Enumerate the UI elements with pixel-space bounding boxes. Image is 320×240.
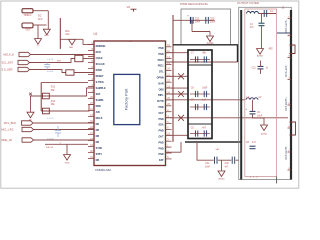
wire C4 drop xyxy=(197,142,214,160)
svg-text:OUT: OUT xyxy=(159,136,165,139)
connector J2 pins xyxy=(288,18,292,20)
wire row A to U1 xyxy=(42,81,88,83)
svg-text:10 F: 10 F xyxy=(38,18,43,21)
schematic sheet border xyxy=(1,1,299,188)
svg-text:MCL_BCK: MCL_BCK xyxy=(4,121,17,125)
wire MCLK to U1 xyxy=(31,54,95,56)
svg-text:PND: PND xyxy=(159,47,164,50)
svg-text:OUT-RGHT-: OUT-RGHT- xyxy=(285,146,288,159)
net flag MCL_LRC xyxy=(22,127,34,131)
svg-text:0.C1.F: 0.C1.F xyxy=(47,118,54,120)
net flag MDE_LR xyxy=(22,138,34,142)
decoupling section box xyxy=(181,9,231,45)
svg-text:SH5: SH5 xyxy=(96,93,101,96)
svg-text:BAR: BAR xyxy=(158,82,163,85)
svg-text:C.0.1F: C.0.1F xyxy=(47,59,54,61)
wire bottom jog up xyxy=(180,142,182,152)
supply arrow PA0 xyxy=(69,39,76,45)
ground STBY xyxy=(64,155,71,161)
wire SCL_DAT to R4 xyxy=(30,59,75,63)
resistor R4 xyxy=(75,55,83,61)
svg-text:OUTPUT FILTER: OUTPUT FILTER xyxy=(237,1,259,5)
svg-text:10uF: 10uF xyxy=(195,21,201,24)
svg-text:CS5340-CZZ: CS5340-CZZ xyxy=(95,168,111,172)
wire C6 stub xyxy=(252,100,254,111)
junction cross C xyxy=(178,115,184,121)
svg-text:10nF: 10nF xyxy=(205,166,211,168)
svg-text:OUT-RGHT+: OUT-RGHT+ xyxy=(285,96,288,110)
wire U1 row x2 xyxy=(166,93,189,95)
svg-text:PND: PND xyxy=(159,53,164,56)
net flag S_SER xyxy=(18,67,30,71)
wire to AGND xyxy=(192,31,210,33)
svg-text:SDA: SDA xyxy=(159,124,164,127)
ground AGND filter top xyxy=(257,49,264,55)
capacitor C8b plates xyxy=(250,145,256,147)
svg-text:MDE_LR: MDE_LR xyxy=(2,138,13,142)
svg-text:P.A.2.A: P.A.2.A xyxy=(46,146,54,149)
svg-text:MCLK: MCLK xyxy=(96,117,103,120)
capacitor C11 (ghost) xyxy=(57,126,59,130)
wire vertical node xyxy=(47,11,49,29)
wire U1 row x1 xyxy=(166,75,189,77)
supply VA stub xyxy=(133,9,135,11)
svg-text:STBY: STBY xyxy=(96,153,103,156)
svg-text:DCO: DCO xyxy=(96,51,101,54)
bank divider 2 xyxy=(188,123,212,125)
svg-text:OUT: OUT xyxy=(25,29,31,32)
svg-text:AGND: AGND xyxy=(261,133,268,136)
svg-text:PWR DECOUPLING: PWR DECOUPLING xyxy=(180,2,208,6)
wire R5 to U1 xyxy=(74,72,94,74)
svg-text:OTL: OTL xyxy=(159,71,164,74)
wire to gnd arrow xyxy=(30,96,32,112)
capacitor C1 series xyxy=(263,10,265,17)
wire U1 row short xyxy=(166,87,189,89)
bank divider 1 xyxy=(188,64,212,66)
svg-text:4R2: 4R2 xyxy=(269,48,274,50)
capacitor C21 plates xyxy=(258,65,264,67)
wire C21 stub up xyxy=(260,61,262,67)
svg-text:DAT: DAT xyxy=(159,159,164,162)
capacitor C52 xyxy=(205,17,207,24)
svg-text:BIPL: BIPL xyxy=(158,94,164,97)
wire filter top xyxy=(259,13,277,15)
wire U1 bottom out xyxy=(166,151,182,153)
wire STBY down xyxy=(66,144,68,154)
junction cross B xyxy=(178,91,184,97)
svg-text:OUT-LEFT+: OUT-LEFT+ xyxy=(285,19,288,33)
svg-text:C41: C41 xyxy=(205,163,210,165)
wire bold rail top xyxy=(173,45,238,62)
wire U1 out to J2 xyxy=(166,117,289,119)
svg-text:PND: PND xyxy=(159,147,164,150)
wire VA rail vertical xyxy=(172,15,174,142)
svg-text:APD: APD xyxy=(45,34,50,37)
U1 right pins xyxy=(166,46,172,48)
svg-text:C21: C21 xyxy=(252,68,257,70)
capacitor C3 plates xyxy=(259,22,265,24)
wire modsel jog vertical xyxy=(82,39,84,44)
IC U1 body xyxy=(94,41,166,166)
svg-text:SAMPLE: SAMPLE xyxy=(96,87,106,90)
capacitor C42 xyxy=(231,157,233,164)
svg-text:U1: U1 xyxy=(94,32,98,36)
svg-text:PND: PND xyxy=(159,141,164,144)
wire MCL_BCK to U1 xyxy=(33,122,94,124)
capacitor C10 (ghost) xyxy=(46,63,48,65)
wire STBY xyxy=(45,143,88,145)
wire U1 out to filter L2 xyxy=(166,99,245,101)
wire R4 to U1 xyxy=(83,58,94,60)
svg-text:PND: PND xyxy=(159,153,164,156)
svg-text:S.S_SER: S.S_SER xyxy=(2,68,13,72)
svg-text:NB: NB xyxy=(96,129,100,132)
svg-text:NB: NB xyxy=(96,141,100,144)
wire decoupling top xyxy=(173,19,215,21)
svg-text:OUT: OUT xyxy=(159,112,165,115)
inductor L2 xyxy=(246,98,258,100)
svg-text:OUT-LEFT-: OUT-LEFT- xyxy=(285,65,288,77)
svg-text:TRIM L: TRIM L xyxy=(23,14,32,17)
svg-text:DND: DND xyxy=(96,105,101,108)
svg-text:NB: NB xyxy=(96,159,100,162)
wire MDE_LR to U1 xyxy=(34,139,95,141)
supply VA bar xyxy=(131,8,137,10)
connector J2 bar xyxy=(290,10,292,180)
svg-text:VA: VA xyxy=(127,5,131,9)
connector J2 bracket A xyxy=(290,45,296,54)
wire C42 to bar xyxy=(236,159,239,161)
resistor R13 xyxy=(43,108,50,114)
svg-text:CS/LE: CS/LE xyxy=(96,57,103,60)
ground AGND jack node xyxy=(43,29,50,35)
wire jack2 to node xyxy=(33,24,47,26)
svg-text:R13: R13 xyxy=(51,101,56,103)
decoupling bank box xyxy=(188,50,212,139)
supply arrow A0 xyxy=(27,112,34,118)
net flag SCL_DAT xyxy=(18,60,30,64)
svg-text:D/SM: D/SM xyxy=(96,69,102,72)
svg-text:PD10: PD10 xyxy=(158,59,165,62)
ground AGND decoupling xyxy=(207,36,214,42)
svg-text:RESET: RESET xyxy=(96,75,105,78)
wire C3 stub xyxy=(261,14,263,23)
ground AGND filter bottom xyxy=(261,125,268,131)
svg-text:ND: ND xyxy=(96,123,100,126)
U1 left pins xyxy=(88,44,94,46)
svg-text:Factory Part: Factory Part xyxy=(124,88,129,111)
svg-text:OUTD: OUTD xyxy=(157,100,164,103)
wire into MODSEL pin xyxy=(83,44,94,46)
bus bar filter left xyxy=(240,10,242,180)
svg-text:OB8: OB8 xyxy=(159,88,165,91)
svg-text:0.01uF: 0.01uF xyxy=(47,139,54,141)
svg-text:MCL_LRC: MCL_LRC xyxy=(2,128,14,132)
resistor R11 lead xyxy=(59,18,61,49)
svg-text:AGND: AGND xyxy=(257,54,264,57)
svg-text:A/B: A/B xyxy=(96,111,100,114)
wire R11 to modsel jog xyxy=(60,38,83,40)
svg-text:S-TRIG: S-TRIG xyxy=(96,81,104,84)
wire MCL_LRC to U1 xyxy=(34,129,95,131)
svg-text:10uF: 10uF xyxy=(257,115,263,117)
svg-text:SCL_DAT: SCL_DAT xyxy=(2,61,14,65)
wire C6 to gnd xyxy=(253,114,265,125)
svg-text:MCLK_E: MCLK_E xyxy=(4,53,15,57)
wire gnd bold rail bottom xyxy=(185,141,241,143)
connector J3 line-in L xyxy=(22,9,33,13)
resistor R12 xyxy=(43,93,50,99)
svg-text:C42: C42 xyxy=(225,163,230,165)
wire jack2 shield down xyxy=(37,25,39,38)
svg-text:AGND: AGND xyxy=(218,177,225,180)
wire AGND stub xyxy=(209,32,211,36)
svg-text:PD11: PD11 xyxy=(158,65,165,68)
capacitor C6 plates xyxy=(250,110,256,112)
wire C51 bottom xyxy=(191,20,193,31)
wire vertical divider xyxy=(40,82,42,111)
annotation box Factory Part xyxy=(114,74,140,124)
svg-text:1uF: 1uF xyxy=(202,100,207,102)
wire gnd drop C4 xyxy=(221,160,223,170)
stub below filter box xyxy=(276,177,278,184)
junction mark left xyxy=(29,93,32,96)
svg-text:SAMPL: SAMPL xyxy=(96,99,105,102)
wire row B to U1 xyxy=(30,88,94,96)
net flag MCLK xyxy=(19,52,31,56)
connector J2 bracket B xyxy=(290,122,296,135)
wire U1 row short b xyxy=(166,134,189,136)
wire U1 to bank row1 xyxy=(166,52,189,54)
wire S_SER to R5 xyxy=(30,70,66,73)
wire C41 to C42 xyxy=(218,159,231,161)
svg-text:GND: GND xyxy=(65,162,70,164)
capacitor C51 xyxy=(190,17,192,24)
ground jack shield xyxy=(35,39,42,45)
junction cross A xyxy=(178,73,184,79)
connector J4 line-in R xyxy=(22,23,33,28)
svg-text:PND: PND xyxy=(159,130,164,133)
svg-text:0.01uF: 0.01uF xyxy=(47,71,54,73)
svg-text:OPNN: OPNN xyxy=(157,77,164,80)
inductor L1 xyxy=(247,12,259,14)
wire jack1 to node xyxy=(33,10,48,12)
svg-text:SCL/AD: SCL/AD xyxy=(96,63,105,66)
svg-text:4 . 2 . 2: 4 . 2 . 2 xyxy=(250,177,258,179)
svg-text:MODSEL: MODSEL xyxy=(96,45,107,48)
wire row C to U1 xyxy=(41,105,94,112)
svg-text:160F: 160F xyxy=(202,88,208,90)
svg-text:PND: PND xyxy=(159,118,164,121)
wire filter out top xyxy=(277,32,290,34)
net flag MCL_BCK xyxy=(22,121,34,125)
filter inner box xyxy=(245,9,277,177)
svg-text:NB: NB xyxy=(96,135,100,138)
wire U1 out to filter bar xyxy=(166,61,238,63)
ground AGND C4 xyxy=(218,171,225,177)
svg-text:R12: R12 xyxy=(51,87,56,89)
svg-text:SYNC: SYNC xyxy=(96,147,103,150)
wire C21 stub down xyxy=(260,69,262,74)
wire C3 to gnd xyxy=(261,26,263,48)
svg-text:PND: PND xyxy=(159,106,164,109)
svg-text:20uF: 20uF xyxy=(210,21,216,24)
output filter frame xyxy=(239,7,292,179)
resistor R5 xyxy=(66,70,74,75)
capacitor C41 xyxy=(214,157,216,164)
